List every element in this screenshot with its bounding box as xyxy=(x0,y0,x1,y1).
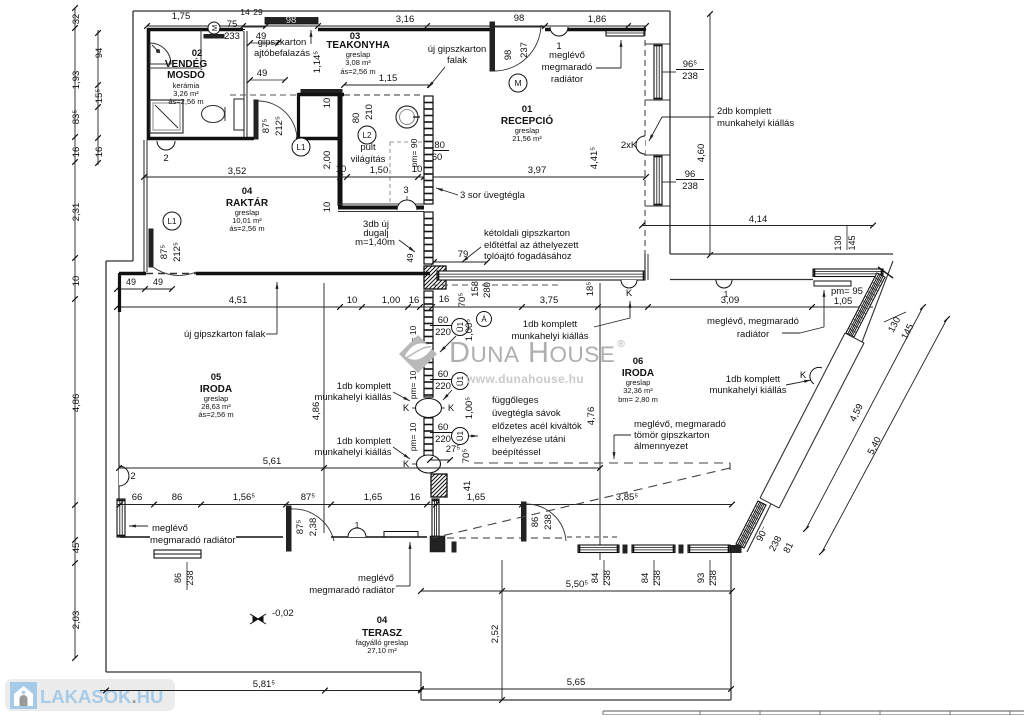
K ellipse bottom xyxy=(417,455,441,473)
svg-text:függőleges: függőleges xyxy=(492,395,539,406)
terrace right edge xyxy=(730,553,732,700)
washroom radiator 2 xyxy=(157,141,175,150)
outer frame left lower xyxy=(105,261,107,672)
svg-text:49: 49 xyxy=(153,277,163,287)
svg-text:49: 49 xyxy=(406,253,415,262)
svg-text:1,00⁵: 1,00⁵ xyxy=(464,397,475,419)
svg-text:ás=2,56 m: ás=2,56 m xyxy=(198,410,233,419)
svg-text:ás=2,56 m: ás=2,56 m xyxy=(229,224,264,233)
toilet tank xyxy=(234,99,244,130)
svg-text:1: 1 xyxy=(724,289,729,299)
svg-text:04: 04 xyxy=(242,186,253,197)
toilet bowl xyxy=(202,106,225,123)
svg-text:®: ® xyxy=(617,339,625,350)
svg-text:3,08 m²: 3,08 m² xyxy=(345,58,371,67)
dim 4,59 diag xyxy=(806,307,923,529)
svg-text:27,10 m²: 27,10 m² xyxy=(367,646,397,655)
svg-text:ajtóbefalazás: ajtóbefalazás xyxy=(254,48,310,59)
svg-text:pult: pult xyxy=(360,142,376,153)
svg-text:2,52: 2,52 xyxy=(490,625,501,644)
svg-text:1,75: 1,75 xyxy=(172,11,191,22)
dim line y504 xyxy=(117,504,732,506)
radiator top reception xyxy=(550,27,568,36)
svg-text:munkahelyi kiállás: munkahelyi kiállás xyxy=(314,447,391,458)
bottom dashed opening xyxy=(447,537,567,539)
dashed ceiling corner xyxy=(729,463,731,470)
svg-text:falak: falak xyxy=(447,55,467,66)
dashed ceiling diagonal xyxy=(433,468,730,538)
svg-text:87⁵: 87⁵ xyxy=(301,492,316,503)
office05 door2 radiator xyxy=(119,466,129,486)
svg-text:4,14: 4,14 xyxy=(749,214,768,225)
reception window upper xyxy=(654,44,662,100)
svg-text:2,31: 2,31 xyxy=(71,203,82,222)
raktar door leaf xyxy=(149,229,153,267)
svg-text:VENDÉG: VENDÉG xyxy=(165,57,207,70)
svg-text:75: 75 xyxy=(227,19,238,30)
washroom shelf xyxy=(148,67,201,69)
svg-text:radiátor: radiátor xyxy=(737,329,769,340)
svg-text:04: 04 xyxy=(377,615,388,626)
svg-text:21,56 m²: 21,56 m² xyxy=(512,134,542,143)
line x600 xyxy=(599,283,601,560)
svg-text:előtétfal az áthelyezett: előtétfal az áthelyezett xyxy=(484,240,579,251)
svg-text:79: 79 xyxy=(458,249,469,260)
svg-text:238: 238 xyxy=(185,570,195,585)
svg-text:98: 98 xyxy=(514,13,525,24)
svg-text:L2: L2 xyxy=(363,131,372,140)
office05 left window xyxy=(117,499,125,537)
svg-text:60: 60 xyxy=(438,315,449,326)
wall top thin over door M xyxy=(492,26,545,28)
band bottom line xyxy=(670,279,813,281)
svg-text:1,00: 1,00 xyxy=(382,295,401,306)
svg-text:93: 93 xyxy=(696,573,707,584)
svg-text:3,75: 3,75 xyxy=(540,295,559,306)
raktar door arc xyxy=(153,267,196,275)
corner sink xyxy=(150,43,171,64)
reception right wall dashed inner xyxy=(644,30,646,254)
svg-text:meglévő: meglévő xyxy=(358,573,394,584)
svg-text:elhelyezése utáni: elhelyezése utáni xyxy=(492,434,565,445)
svg-text:4,86: 4,86 xyxy=(71,394,82,413)
svg-text:L1: L1 xyxy=(168,217,177,226)
svg-text:87⁵: 87⁵ xyxy=(261,119,272,134)
svg-text:158: 158 xyxy=(470,281,481,297)
svg-text:32: 32 xyxy=(71,14,82,25)
svg-text:2,38: 2,38 xyxy=(308,518,319,537)
svg-text:87⁵: 87⁵ xyxy=(159,245,170,260)
svg-text:világítás: világítás xyxy=(351,154,386,165)
diagonal window bottom xyxy=(736,501,766,548)
svg-text:radiátor: radiátor xyxy=(551,74,583,85)
svg-text:29: 29 xyxy=(253,7,263,17)
door jamb a xyxy=(452,542,456,552)
svg-text:megmaradó radiátor: megmaradó radiátor xyxy=(309,585,395,596)
radiator below wall xyxy=(154,550,201,558)
svg-text:10: 10 xyxy=(322,202,333,213)
outer frame left upper xyxy=(132,11,134,261)
svg-text:Ü1: Ü1 xyxy=(456,430,465,441)
diagonal outer line top xyxy=(862,261,893,342)
radiator bar in wall xyxy=(384,532,418,538)
svg-text:2: 2 xyxy=(163,153,168,164)
svg-text:238: 238 xyxy=(682,71,698,82)
svg-text:M: M xyxy=(514,78,521,88)
band top line xyxy=(670,253,893,255)
svg-text:10: 10 xyxy=(347,295,358,306)
M circle reception xyxy=(509,74,527,92)
svg-text:1,15: 1,15 xyxy=(379,73,398,84)
glass wall below box xyxy=(424,291,433,397)
hall east wall xyxy=(297,93,300,140)
main dim line y307 xyxy=(117,306,873,308)
svg-text:06: 06 xyxy=(633,356,644,367)
svg-text:01: 01 xyxy=(522,104,533,115)
svg-text:10: 10 xyxy=(336,164,347,175)
svg-text:237: 237 xyxy=(519,42,530,58)
radiator bar top right xyxy=(606,30,644,36)
svg-text:munkahelyi kiállás: munkahelyi kiállás xyxy=(717,118,794,129)
svg-text:145: 145 xyxy=(847,235,857,250)
A circle xyxy=(477,312,492,327)
svg-text:M: M xyxy=(210,25,219,31)
wall top middle xyxy=(318,28,492,32)
svg-text:megmaradó: megmaradó xyxy=(542,62,593,73)
svg-text:beépítéssel: beépítéssel xyxy=(492,447,541,458)
svg-text:pm= 95: pm= 95 xyxy=(831,286,863,297)
svg-text:bm= 2,80 m: bm= 2,80 m xyxy=(618,395,658,404)
radiator bar below win xyxy=(814,281,851,286)
svg-text:27⁵: 27⁵ xyxy=(446,444,461,455)
raktar west wall double xyxy=(143,140,145,272)
svg-text:94: 94 xyxy=(94,48,105,59)
logo house icon xyxy=(10,682,37,709)
svg-text:meglévő: meglévő xyxy=(549,50,585,61)
svg-text:2db komplett: 2db komplett xyxy=(717,106,772,117)
svg-text:előzetes acél kiváltók: előzetes acél kiváltók xyxy=(492,421,582,432)
band left closure xyxy=(644,254,646,280)
svg-text:49: 49 xyxy=(257,68,268,79)
svg-text:3 sor üvegtégla: 3 sor üvegtégla xyxy=(460,190,526,201)
jamb b xyxy=(623,545,627,553)
corner tick diag top xyxy=(878,267,893,278)
svg-text:kétoldali gipszkarton: kétoldali gipszkarton xyxy=(484,228,570,239)
svg-text:1,50: 1,50 xyxy=(370,165,389,176)
svg-text:32,36 m²: 32,36 m² xyxy=(623,386,653,395)
svg-text:4,51: 4,51 xyxy=(229,295,248,306)
level marker -0,02 xyxy=(250,614,266,624)
radiator bump bottom xyxy=(348,528,366,537)
diagonal wall band xyxy=(760,333,845,498)
svg-text:84: 84 xyxy=(640,573,651,584)
terrace bottom left xyxy=(106,671,421,673)
svg-text:K: K xyxy=(403,403,410,414)
hall door arc L1 xyxy=(258,101,297,140)
svg-text:új gipszkarton falak: új gipszkarton falak xyxy=(184,329,266,340)
svg-text:4,60: 4,60 xyxy=(696,144,707,163)
office05 left wall double xyxy=(118,273,121,312)
svg-text:84: 84 xyxy=(590,573,601,584)
toilet seat line xyxy=(224,107,226,121)
svg-text:05: 05 xyxy=(211,372,222,383)
svg-text:60: 60 xyxy=(438,422,449,433)
svg-text:L1: L1 xyxy=(297,143,306,152)
svg-text:2xK: 2xK xyxy=(621,140,638,151)
L2 circle xyxy=(358,126,376,144)
svg-text:220: 220 xyxy=(435,381,451,392)
door leaf bl xyxy=(287,506,292,551)
svg-text:üvegtégla sávok: üvegtégla sávok xyxy=(492,408,561,419)
teakonyha top wall xyxy=(298,93,344,96)
dashed over washroom xyxy=(230,94,298,96)
svg-text:4,86: 4,86 xyxy=(311,402,322,421)
svg-text:14: 14 xyxy=(240,7,250,17)
reception wall gap edges xyxy=(645,99,670,101)
svg-text:m=1,40m: m=1,40m xyxy=(355,237,395,248)
svg-text:K: K xyxy=(626,288,633,299)
svg-text:87⁵: 87⁵ xyxy=(295,520,306,535)
svg-text:5,65: 5,65 xyxy=(567,677,586,688)
svg-text:60: 60 xyxy=(438,369,449,380)
svg-text:18⁵: 18⁵ xyxy=(585,282,596,297)
teakonyha bottom wall xyxy=(338,206,424,210)
teakonyha door 3 xyxy=(397,200,417,210)
glass wall upper (teakonyha) xyxy=(424,96,433,204)
svg-text:2,00: 2,00 xyxy=(322,151,333,170)
svg-text:10: 10 xyxy=(322,98,333,109)
wall top right xyxy=(545,28,646,32)
radiator bump y280 a xyxy=(621,280,637,288)
dim 5,40 diag xyxy=(822,319,947,552)
door leaf bm xyxy=(522,502,527,541)
svg-text:16: 16 xyxy=(94,147,105,158)
svg-text:1db komplett: 1db komplett xyxy=(337,436,392,447)
svg-text:2: 2 xyxy=(130,471,135,482)
wall y272 door dashes xyxy=(146,273,196,275)
svg-text:96⁵: 96⁵ xyxy=(683,59,698,70)
terrace step xyxy=(420,672,422,700)
glass wall below K xyxy=(424,418,433,456)
door M arc xyxy=(495,25,542,71)
washroom left wall xyxy=(147,28,151,140)
svg-text:86: 86 xyxy=(173,573,183,583)
svg-text:1db komplett: 1db komplett xyxy=(337,381,392,392)
window horiz right xyxy=(813,269,883,277)
svg-text:66: 66 xyxy=(132,492,143,503)
hall bottom wall xyxy=(296,137,340,141)
svg-text:83⁵: 83⁵ xyxy=(71,110,82,125)
svg-text:212⁵: 212⁵ xyxy=(274,116,285,136)
svg-text:1db komplett: 1db komplett xyxy=(523,319,578,330)
outer frame top xyxy=(133,10,670,12)
svg-text:98: 98 xyxy=(503,50,514,61)
svg-text:233: 233 xyxy=(224,31,240,42)
svg-text:10: 10 xyxy=(412,164,423,175)
svg-text:5,50⁵: 5,50⁵ xyxy=(566,579,588,590)
bottom wall seg1 xyxy=(120,536,150,538)
svg-text:3,16: 3,16 xyxy=(396,14,415,25)
svg-text:130: 130 xyxy=(833,235,843,250)
washroom bottom wall xyxy=(147,137,254,141)
svg-text:70⁵: 70⁵ xyxy=(461,449,472,464)
svg-text:Ü1: Ü1 xyxy=(456,375,465,386)
terrace bottom right xyxy=(421,699,731,701)
svg-text:96: 96 xyxy=(685,169,696,180)
window sill dashes xyxy=(567,536,619,538)
svg-text:4,76: 4,76 xyxy=(586,407,597,426)
bottom wall corner chunk xyxy=(430,536,445,552)
teakonyha left wall xyxy=(338,94,343,206)
teakonyha top dashed xyxy=(344,94,424,96)
hall door leaf L1 xyxy=(254,100,258,139)
left dim chain line xyxy=(74,8,76,658)
svg-text:1,65: 1,65 xyxy=(467,492,486,503)
svg-text:meglévő, megmaradó: meglévő, megmaradó xyxy=(707,316,799,327)
L1 circle hall xyxy=(292,138,310,156)
svg-text:DUNA HOUSE: DUNA HOUSE xyxy=(449,337,615,369)
svg-text:280: 280 xyxy=(482,282,493,298)
svg-text:3: 3 xyxy=(403,185,408,196)
svg-text:új gipszkarton: új gipszkarton xyxy=(428,44,487,55)
outer frame step at y261 xyxy=(106,260,133,262)
logo box xyxy=(5,679,175,711)
dim 4,60 line xyxy=(709,14,711,255)
svg-text:238: 238 xyxy=(682,181,698,192)
dim 5,81 line over logo xyxy=(100,690,180,692)
svg-text:álmennyezet: álmennyezet xyxy=(634,441,688,452)
svg-text:10: 10 xyxy=(71,276,82,287)
K ellipse top xyxy=(416,399,442,418)
window below hatch xyxy=(432,499,439,538)
svg-text:munkahelyi kiállás: munkahelyi kiállás xyxy=(314,392,391,403)
wall y272 left thick xyxy=(119,272,146,276)
svg-text:5,81⁵: 5,81⁵ xyxy=(253,679,275,690)
L1 circle raktar xyxy=(163,212,181,230)
dashed divider teakonyha xyxy=(389,142,391,204)
svg-text:gipszkarton: gipszkarton xyxy=(258,37,307,48)
svg-text:1db komplett: 1db komplett xyxy=(726,374,781,385)
svg-text:238: 238 xyxy=(543,514,554,530)
reception window lower xyxy=(654,155,662,206)
svg-text:1,05: 1,05 xyxy=(834,296,853,307)
diagonal window top xyxy=(846,273,885,337)
svg-text:212⁵: 212⁵ xyxy=(172,242,183,262)
shower screen bar xyxy=(204,35,224,39)
M circle washroom xyxy=(208,22,220,34)
svg-text:70⁵: 70⁵ xyxy=(457,293,468,308)
bottom wall seg2 xyxy=(331,536,427,538)
svg-text:Á: Á xyxy=(481,315,487,324)
svg-text:K: K xyxy=(448,403,455,414)
2xK radiator bump xyxy=(636,136,645,154)
svg-text:MOSDÓ: MOSDÓ xyxy=(167,68,205,81)
svg-text:1,65: 1,65 xyxy=(364,492,383,503)
door bar 98 (walled-up door) xyxy=(265,18,318,25)
bottom pavement band xyxy=(603,710,1024,712)
sink circle xyxy=(396,106,418,128)
svg-text:pm= 90: pm= 90 xyxy=(409,138,419,167)
svg-text:pm= 10: pm= 10 xyxy=(408,422,418,451)
svg-text:1,56⁵: 1,56⁵ xyxy=(233,492,255,503)
wall y272 mid thick xyxy=(196,272,430,276)
shower tray xyxy=(150,100,183,133)
hatch box top xyxy=(401,266,468,289)
washroom right wall double xyxy=(243,31,245,137)
dim line y177 xyxy=(144,176,646,178)
door arc bm xyxy=(526,504,566,541)
window bottom 1 xyxy=(578,545,619,553)
svg-text:1,93: 1,93 xyxy=(71,71,82,90)
svg-text:49: 49 xyxy=(126,277,136,287)
svg-text:3,52: 3,52 xyxy=(228,166,247,177)
svg-text:86: 86 xyxy=(172,492,183,503)
svg-text:megmaradó radiátor: megmaradó radiátor xyxy=(150,535,236,546)
K right arc xyxy=(810,367,822,384)
svg-text:98: 98 xyxy=(286,15,297,26)
glass wall mid xyxy=(424,212,433,264)
door M leaf xyxy=(490,22,495,71)
svg-text:4,41⁵: 4,41⁵ xyxy=(589,147,600,169)
window bottom 2 xyxy=(632,545,675,553)
svg-text:LAKASOK.HU: LAKASOK.HU xyxy=(40,686,163,707)
svg-text:pm= 10: pm= 10 xyxy=(408,370,418,399)
svg-text:16: 16 xyxy=(409,295,420,306)
radiator bump y280 b xyxy=(716,280,732,288)
svg-text:meglévő: meglévő xyxy=(152,523,188,534)
svg-text:1: 1 xyxy=(355,520,360,530)
svg-text:45: 45 xyxy=(71,543,82,554)
dim 4,86 mid line xyxy=(323,283,325,533)
watermark diamond xyxy=(399,335,437,373)
door arc bl xyxy=(291,509,334,541)
svg-text:1,14⁵: 1,14⁵ xyxy=(312,51,323,73)
jamb c xyxy=(679,545,683,553)
svg-text:K: K xyxy=(800,370,807,381)
svg-text:ás=2,56 m: ás=2,56 m xyxy=(340,67,375,76)
svg-text:210: 210 xyxy=(364,104,375,120)
svg-text:02: 02 xyxy=(192,48,203,59)
svg-text:-0,02: -0,02 xyxy=(272,608,294,619)
diagonal outer line bottom xyxy=(747,504,771,552)
hatch box bottom xyxy=(408,474,467,497)
svg-text:41: 41 xyxy=(462,481,473,492)
left chain2 line xyxy=(97,30,99,165)
svg-text:86: 86 xyxy=(530,517,541,528)
svg-text:16: 16 xyxy=(71,147,82,158)
svg-text:16: 16 xyxy=(439,294,450,305)
svg-text:80: 80 xyxy=(351,113,362,124)
svg-text:2,03: 2,03 xyxy=(71,611,82,630)
svg-text:5,61: 5,61 xyxy=(263,456,282,467)
svg-text:www.dunahouse.hu: www.dunahouse.hu xyxy=(465,372,584,386)
svg-text:16: 16 xyxy=(410,492,421,503)
diagonal bottom corner piece xyxy=(729,546,741,553)
svg-text:1,86: 1,86 xyxy=(588,14,607,25)
wall top (washroom) xyxy=(147,28,243,32)
svg-text:ás=2,56 m: ás=2,56 m xyxy=(168,97,203,106)
outer frame right xyxy=(669,11,671,254)
dashed y285 xyxy=(432,284,560,286)
svg-text:munkahelyi kiállás: munkahelyi kiállás xyxy=(709,385,786,396)
window band y272 xyxy=(437,271,645,280)
svg-text:tolóajtó fogadásához: tolóajtó fogadásához xyxy=(484,251,572,262)
window bottom 3 xyxy=(688,545,730,553)
wall top thin over opening xyxy=(243,26,266,28)
svg-text:tömör gipszkarton: tömör gipszkarton xyxy=(634,430,710,441)
svg-text:3,97: 3,97 xyxy=(528,165,547,176)
svg-text:meglévő, megmaradó: meglévő, megmaradó xyxy=(634,419,726,430)
